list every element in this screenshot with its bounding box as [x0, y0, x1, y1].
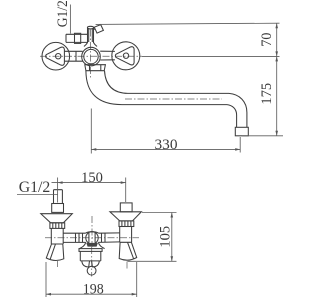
svg-text:198: 198: [83, 282, 104, 298]
svg-text:70: 70: [259, 33, 275, 47]
svg-text:105: 105: [158, 226, 174, 248]
svg-text:330: 330: [155, 137, 178, 153]
svg-text:175: 175: [259, 83, 275, 105]
svg-text:150: 150: [81, 170, 103, 186]
svg-text:G1/2: G1/2: [19, 179, 51, 196]
svg-text:G1/2: G1/2: [55, 0, 71, 27]
